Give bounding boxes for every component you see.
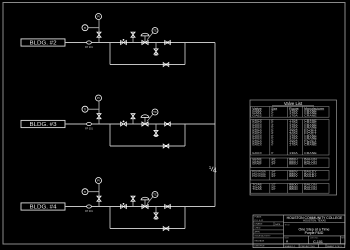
svg-text:BLDG. #3: BLDG. #3: [30, 122, 57, 128]
flow element FP-201 inline: [85, 41, 93, 49]
building box BLDG. #4: [21, 203, 65, 210]
globe valve B on main: [165, 41, 171, 45]
vent stub: [132, 32, 134, 43]
instrument bubble PI: [96, 14, 102, 20]
wire bypass run: [110, 64, 185, 66]
scale / sheet row: [285, 244, 343, 248]
valve root (vertical) on stem: [97, 32, 101, 37]
wire instrument stem: [98, 101, 100, 124]
svg-text:Purple P&ID: Purple P&ID: [305, 231, 324, 235]
svg-text:GA6CX: GA6CX: [252, 151, 262, 155]
svg-text:TGA6: TGA6: [252, 187, 262, 191]
title block divider: [284, 222, 345, 224]
svg-text:TI: TI: [84, 190, 87, 194]
wire bypass run: [110, 145, 185, 147]
wire bypass run: [110, 228, 185, 230]
valve list group 3: [251, 157, 329, 168]
riser size label 1/4: [209, 165, 217, 175]
svg-text:GRA6F: GRA6F: [252, 162, 262, 166]
drain stub: [155, 207, 157, 220]
drain valve (vertical): [154, 130, 158, 136]
svg-text:880V: 880V: [289, 174, 298, 178]
wire main pipe from BLDG. #3: [65, 123, 215, 125]
building box BLDG. #3: [21, 120, 65, 127]
flow element FP-301 inline: [85, 122, 93, 130]
svg-text:DRAWN: DRAWN: [255, 222, 263, 225]
wire signal diagonal: [147, 114, 153, 121]
flow element FP-401 inline: [85, 205, 93, 213]
svg-text:PI: PI: [97, 96, 100, 100]
size / dwg no row: [285, 236, 346, 244]
header riser pipe: [214, 43, 216, 207]
wire bypass down leg: [109, 43, 111, 65]
valve list outer box: [250, 100, 337, 195]
instrument bubble TC: [152, 28, 158, 34]
bypass globe valve: [163, 227, 169, 231]
svg-text:1: 1: [209, 165, 212, 170]
title block left fields: [253, 215, 284, 248]
wire bypass down leg: [109, 124, 111, 146]
valve list group 5: [251, 183, 329, 194]
svg-text:FP 301: FP 301: [85, 127, 93, 130]
wire bypass up leg: [184, 43, 186, 65]
svg-text:130A: 130A: [289, 151, 298, 155]
wire signal diagonal: [147, 197, 153, 204]
instrument bubble TC: [152, 109, 158, 115]
instrument bubble PI: [96, 178, 102, 184]
title block company name: [287, 216, 343, 223]
svg-text:C-101: C-101: [313, 240, 323, 244]
title block divider 3: [284, 243, 345, 245]
bypass globe valve: [163, 63, 169, 67]
svg-text:DATE: DATE: [275, 223, 281, 226]
wire bypass down leg: [109, 207, 111, 229]
instrument bubble PI: [96, 95, 102, 101]
svg-text:PSV PG6A: PSV PG6A: [252, 174, 266, 178]
wire main pipe from BLDG. #2: [65, 42, 215, 44]
control valve CV with actuator: [141, 197, 149, 208]
svg-text:APPD: APPD: [255, 230, 261, 233]
svg-text:TI: TI: [84, 26, 87, 30]
svg-text:GA6CX: GA6CX: [252, 143, 262, 147]
svg-text:CRANE: CRANE: [304, 143, 317, 147]
svg-text:RELEASE: RELEASE: [255, 239, 265, 242]
instrument bubble TC: [152, 192, 158, 198]
drain valve (vertical): [154, 49, 158, 55]
wire signal diagonal: [147, 33, 153, 40]
title block divider 2: [284, 235, 345, 237]
svg-text:CRANE: CRANE: [304, 113, 317, 117]
valve list group 2: [251, 119, 329, 156]
svg-text:GA62: GA62: [252, 113, 262, 117]
svg-text:TC: TC: [153, 110, 157, 114]
instrument bubble TI: [82, 189, 88, 195]
gate valve A on main: [121, 203, 127, 209]
gate valve A on main: [121, 39, 127, 45]
svg-text:Valve List: Valve List: [284, 101, 303, 106]
svg-text:FP 401: FP 401: [85, 210, 93, 213]
svg-text:CHKD: CHKD: [255, 227, 261, 229]
title block outer box: [253, 215, 345, 248]
globe valve B on main: [165, 205, 171, 209]
drain stub: [155, 124, 157, 137]
vent valve (vertical): [131, 114, 135, 119]
svg-text:CRANE: CRANE: [304, 151, 317, 155]
svg-text:BLDG. #2: BLDG. #2: [30, 40, 57, 46]
svg-text:PI: PI: [97, 179, 100, 183]
svg-text:3/4": 3/4": [271, 174, 276, 178]
valve root (vertical) on stem: [97, 114, 101, 119]
bypass globe valve: [163, 144, 169, 148]
svg-text:P.O. 4-12: P.O. 4-12: [255, 220, 264, 222]
svg-text:6": 6": [271, 113, 273, 117]
svg-text:8800: 8800: [289, 187, 298, 191]
drain stub: [155, 43, 157, 56]
svg-text:TITLE: TITLE: [285, 224, 291, 226]
svg-text:170A: 170A: [289, 143, 298, 147]
svg-text:6": 6": [271, 143, 273, 147]
valve root (vertical) on stem: [97, 196, 101, 201]
wire instrument stem: [98, 20, 100, 43]
svg-text:DWG FILE: DWG FILE: [255, 245, 266, 247]
svg-text:SCALE 1:1: SCALE 1:1: [285, 245, 297, 248]
wire bypass up leg: [184, 124, 186, 146]
vent valve (vertical): [131, 196, 135, 201]
svg-text:SHEET 1 OF 1: SHEET 1 OF 1: [327, 246, 342, 248]
control valve CV with actuator: [141, 33, 149, 44]
svg-text:4: 4: [213, 166, 217, 175]
wire bubble connector: [88, 108, 99, 110]
instrument bubble TI: [82, 106, 88, 112]
svg-text:TI: TI: [84, 107, 87, 111]
building box BLDG. #2: [21, 39, 65, 46]
gate valve A on main: [121, 121, 127, 127]
svg-text:BALON: BALON: [304, 162, 317, 166]
svg-text:FP 201: FP 201: [85, 46, 93, 49]
wire instrument stem: [98, 184, 100, 207]
control valve CV with actuator: [141, 115, 149, 126]
valve list title: [272, 101, 314, 106]
svg-text:170A: 170A: [289, 113, 298, 117]
instrument bubble TI: [82, 25, 88, 31]
svg-text:3/4": 3/4": [271, 162, 276, 166]
svg-text:BAILEY: BAILEY: [304, 174, 317, 178]
svg-text:ISSUE ACTIVITY: ISSUE ACTIVITY: [255, 235, 272, 238]
svg-text:880U: 880U: [289, 162, 298, 166]
svg-text:PROJECT NO.: PROJECT NO.: [301, 246, 316, 248]
valve list header group: [251, 106, 329, 117]
vent stub: [132, 196, 134, 207]
drain valve (vertical): [154, 213, 158, 219]
vent stub: [132, 113, 134, 124]
svg-text:1/2": 1/2": [271, 187, 276, 191]
wire bubble connector: [88, 191, 99, 193]
svg-text:BALON: BALON: [304, 187, 317, 191]
drawing title: [285, 224, 330, 235]
vent valve (vertical): [131, 32, 135, 37]
svg-text:BLDG. #4: BLDG. #4: [30, 204, 57, 210]
svg-text:6": 6": [271, 151, 273, 155]
globe valve B on main: [165, 122, 171, 126]
svg-text:TC: TC: [153, 29, 157, 33]
svg-text:PI: PI: [97, 15, 100, 19]
wire bubble connector: [88, 27, 99, 29]
wire main pipe from BLDG. #4: [65, 206, 215, 208]
svg-text:PLANS: PLANS: [255, 216, 262, 219]
wire bypass up leg: [184, 207, 186, 229]
valve list group 4: [251, 170, 329, 181]
svg-text:TC: TC: [153, 193, 157, 197]
svg-text:HOUSTON, TEXAS: HOUSTON, TEXAS: [303, 219, 326, 223]
